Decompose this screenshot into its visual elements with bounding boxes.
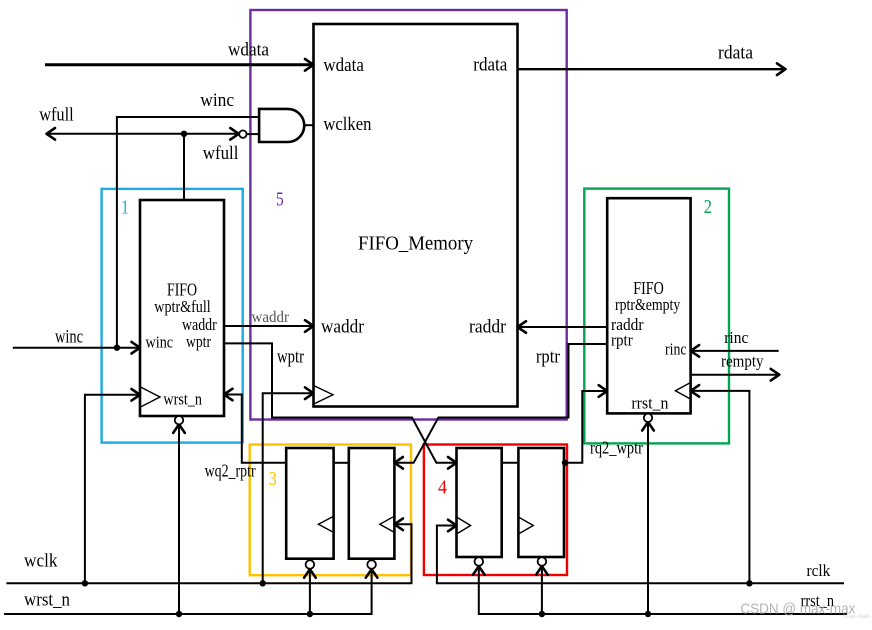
svg-text:wfull: wfull	[39, 105, 73, 126]
svg-text:wptr: wptr	[277, 347, 305, 368]
svg-text:rdata: rdata	[718, 43, 754, 64]
svg-text:wclk: wclk	[24, 551, 58, 572]
svg-text:5: 5	[276, 189, 284, 211]
svg-text:rinc: rinc	[724, 328, 748, 347]
svg-text:wrst_n: wrst_n	[163, 389, 202, 408]
svg-text:wptr&full: wptr&full	[154, 297, 211, 316]
svg-text:winc: winc	[200, 90, 234, 111]
svg-text:waddr: waddr	[252, 309, 290, 326]
svg-text:4: 4	[438, 477, 447, 499]
svg-text:waddr: waddr	[321, 317, 365, 338]
svg-text:rinc: rinc	[665, 340, 687, 359]
svg-text:max-max: max-max	[843, 613, 870, 620]
svg-text:wdata: wdata	[228, 40, 270, 61]
svg-text:rdata: rdata	[473, 55, 507, 76]
svg-text:rptr: rptr	[536, 346, 561, 367]
svg-text:wq2_rptr: wq2_rptr	[205, 461, 256, 481]
svg-text:wrst_n: wrst_n	[24, 590, 70, 611]
svg-text:rptr&empty: rptr&empty	[615, 295, 681, 314]
svg-text:2: 2	[704, 196, 712, 218]
svg-text:1: 1	[121, 197, 129, 219]
svg-text:3: 3	[269, 468, 277, 490]
svg-text:rq2_wptr: rq2_wptr	[590, 438, 643, 458]
svg-text:rempty: rempty	[721, 352, 764, 371]
svg-text:raddr: raddr	[469, 317, 507, 338]
svg-text:wdata: wdata	[323, 55, 364, 76]
svg-text:wfull: wfull	[203, 143, 239, 164]
svg-text:FIFO_Memory: FIFO_Memory	[358, 233, 473, 255]
svg-text:winc: winc	[146, 333, 174, 352]
svg-text:wclken: wclken	[323, 114, 371, 135]
svg-text:rrst_n: rrst_n	[631, 394, 668, 413]
svg-text:wptr: wptr	[186, 332, 211, 351]
svg-text:rptr: rptr	[611, 331, 633, 350]
svg-text:winc: winc	[55, 327, 83, 348]
svg-text:rclk: rclk	[807, 561, 831, 580]
svg-text:CSDN @ max-max: CSDN @ max-max	[740, 602, 856, 618]
